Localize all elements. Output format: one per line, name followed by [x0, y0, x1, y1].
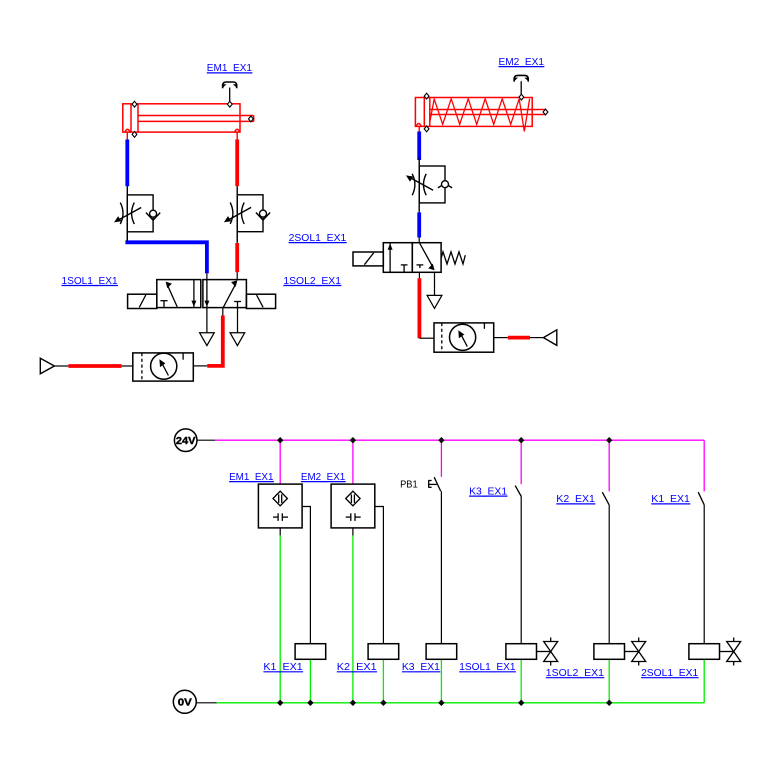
5/2 valve left position internals [160, 280, 196, 308]
service unit 1 (filter-regulator with gauge) [133, 353, 194, 381]
cylinder EM2 (single-acting, spring return) [415, 98, 545, 132]
branch K3 contact: magenta drop [520, 440, 522, 484]
label K2_EX1 (coil) [337, 661, 377, 673]
branch EM1: magenta drop [279, 440, 281, 484]
svg-text:24V: 24V [176, 436, 196, 447]
wire red: cylinder EM1 right port down to flow valve V2 [236, 132, 238, 186]
connection diamonds cylinder EM1 [132, 101, 253, 137]
wire blue: cylinder EM2 port down to flow valve V3 [418, 126, 420, 160]
pushbutton PB1 (NO contact) [429, 477, 441, 491]
5/2 valve right position internals [204, 280, 241, 309]
branch PB1: magenta drop [440, 440, 442, 477]
label K3_EX1 (coil) [402, 661, 440, 673]
label 2SOL1_EX1 (coil) [641, 667, 699, 679]
label 2SOL1_EX1 (3/2 valve) [289, 232, 347, 244]
label K3_EX1 (contact) [469, 485, 507, 497]
compressed air source (right, pointing left) [543, 330, 556, 346]
0V supply circle [173, 690, 196, 713]
exhaust port 5 with silencer triangle (left) [200, 308, 215, 346]
flow control valve V2 [224, 186, 270, 242]
3/2 valve right position internals [417, 243, 435, 271]
wire blue: cylinder EM1 left port down to flow valve V1 [126, 132, 128, 186]
branch K2 contact: magenta drop [608, 440, 610, 491]
label EM2_EX1 (cylinder sensor) [499, 56, 545, 68]
return spring on 3/2 valve [441, 252, 465, 264]
proximity sensor EM1 (electrical) [258, 484, 302, 528]
wire red: supply P into 5/2 valve (elbow from service unit) [193, 308, 223, 366]
label K2_EX1 (contact) [556, 493, 595, 505]
wire green: 2SOL1 to 0V rail corner [703, 659, 705, 703]
wire green: 1SOL2 to 0V rail [608, 659, 610, 703]
label 1SOL1_EX1 (coil) [459, 661, 516, 673]
pilot solenoid 1SOL2 (right) [246, 294, 275, 308]
flow control valve V1 [114, 186, 160, 242]
wire 24V stub [197, 439, 215, 441]
wire: PB1 to K3 coil (black) [440, 491, 442, 644]
relay coil K2 [368, 644, 399, 660]
relay coil K1 [295, 644, 326, 660]
0V rail (green) [217, 702, 705, 704]
3/2-way valve body [383, 243, 441, 273]
svg-text:0V: 0V [178, 698, 192, 709]
sensor marker EM1 on cylinder [222, 82, 238, 101]
wire: EM1 output to K1 coil (black) [302, 507, 310, 644]
solenoid coil 2SOL1 with valve symbol [689, 638, 741, 666]
relay contact K2 (NO) [602, 492, 609, 505]
solenoid coil 2SOL1 on 3/2 valve [353, 252, 383, 266]
wire red: supply P into 3/2 valve from service unit 2 [419, 272, 434, 338]
svg-text:PB1: PB1 [400, 478, 418, 490]
service unit 2 (filter-regulator with gauge) [434, 323, 494, 352]
relay coil K3 [426, 644, 457, 660]
5/2-way valve body [157, 280, 247, 308]
label 1SOL1_EX1 [62, 275, 119, 287]
pilot solenoid 1SOL1 (left) [128, 294, 157, 308]
connection diamonds cylinder EM2 [424, 93, 548, 132]
wire red: air source to service unit 1 [54, 365, 132, 367]
wire green: K3 coil to 0V rail [440, 659, 442, 703]
label K1_EX1 (contact) [651, 493, 690, 505]
wire red: air source 2 to service unit 2 [494, 337, 544, 339]
label 1SOL2_EX1 [283, 275, 341, 287]
wire green: K1 coil to 0V rail [309, 659, 311, 703]
wire green: 1SOL1 to 0V rail [520, 659, 522, 703]
exhaust with silencer triangle (3/2 valve) [427, 272, 442, 308]
exhaust port 3 with silencer triangle (right) [230, 308, 245, 345]
relay contact K1 (NO) [698, 492, 704, 505]
solenoid coil 1SOL1 with valve symbol [506, 638, 558, 666]
branch EM2: magenta drop [352, 440, 354, 484]
label EM1_EX1 (cylinder sensor) [207, 62, 253, 74]
wire green: EM2 to 0V rail [352, 528, 354, 703]
wire green: K2 coil to 0V rail [382, 659, 384, 703]
wire: K2 contact to 1SOL2 (black) [608, 505, 610, 644]
wire blue: flow valve V3 to 3/2 valve port A [418, 212, 420, 243]
24V supply circle [174, 429, 197, 452]
wire: K1 contact to 2SOL1 (black) [703, 505, 705, 644]
wire: K3 contact to 1SOL1 (black) [520, 497, 522, 644]
junction dots 24V rail [277, 437, 612, 443]
wire 0V stub [196, 702, 216, 704]
3/2 valve left position internals [388, 243, 408, 273]
label K1_EX1 (coil) [263, 661, 303, 673]
wire: EM2 output to K2 coil (black) [375, 507, 384, 644]
flow control valve V3 (mirrored) [406, 158, 452, 212]
wire red: flow valve V2 to 5/2 valve port B [236, 232, 238, 280]
wire green: EM1 to 0V rail [279, 528, 281, 703]
sensor marker EM2 on cylinder [513, 75, 529, 94]
junction dots 0V rail [277, 700, 612, 706]
solenoid coil 1SOL2 with valve symbol [594, 638, 646, 666]
compressed air source (left) [40, 358, 54, 374]
proximity sensor EM2 (electrical) [331, 484, 375, 528]
label 1SOL2_EX1 (coil) [546, 667, 605, 679]
branch K1 contact: magenta corner drop [703, 440, 705, 491]
relay contact K3 (NO) [515, 486, 521, 497]
cylinder EM1 (double-acting) [123, 104, 254, 132]
24V rail (magenta) [215, 439, 704, 441]
wire blue: flow valve V1 to 5/2 valve port A (elbow) [125, 232, 206, 280]
label EM1_EX1 (electrical) [229, 471, 274, 483]
label EM2_EX1 (electrical) [301, 471, 346, 483]
